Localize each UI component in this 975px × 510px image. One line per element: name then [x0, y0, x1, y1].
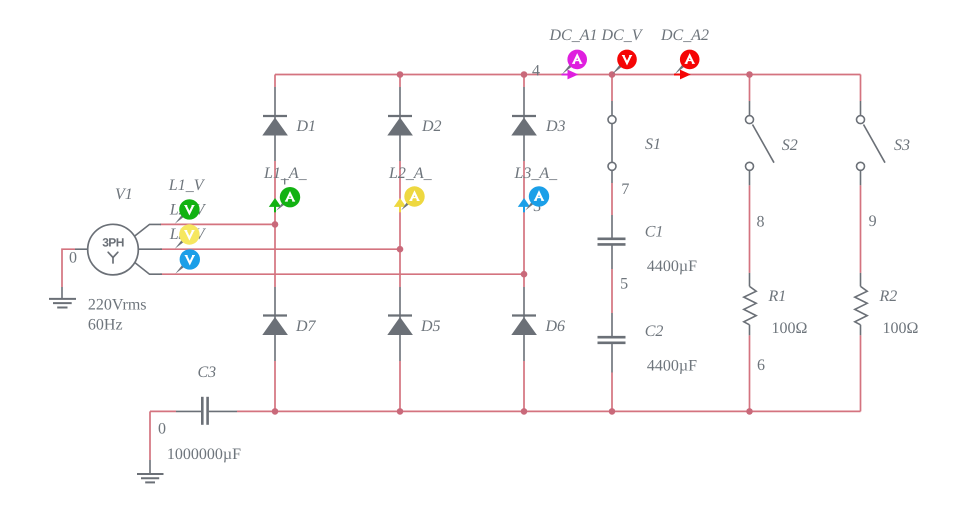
svg-text:3PH: 3PH: [102, 236, 124, 250]
svg-text:D7: D7: [295, 318, 317, 335]
svg-text:S1: S1: [645, 136, 661, 153]
svg-text:5: 5: [620, 275, 628, 292]
svg-text:D2: D2: [421, 118, 442, 135]
svg-text:DC_V: DC_V: [601, 27, 644, 44]
svg-text:L2_A_: L2_A_: [388, 165, 433, 182]
svg-text:4: 4: [532, 63, 540, 80]
svg-text:6: 6: [757, 357, 765, 374]
svg-text:R1: R1: [768, 288, 787, 305]
svg-text:1000000µF: 1000000µF: [167, 446, 241, 463]
svg-text:V1: V1: [115, 186, 133, 203]
svg-text:4400µF: 4400µF: [647, 258, 697, 275]
svg-text:9: 9: [869, 213, 877, 230]
svg-text:R2: R2: [879, 288, 898, 305]
svg-text:D3: D3: [545, 118, 566, 135]
svg-text:C1: C1: [645, 224, 664, 241]
svg-text:8: 8: [757, 213, 765, 230]
svg-text:S3: S3: [894, 137, 910, 154]
svg-text:D5: D5: [420, 318, 441, 335]
svg-text:0: 0: [158, 421, 166, 438]
svg-text:D6: D6: [545, 318, 566, 335]
svg-text:DC_A2: DC_A2: [660, 27, 709, 44]
svg-text:DC_A1: DC_A1: [549, 27, 598, 44]
svg-text:7: 7: [621, 181, 629, 198]
svg-text:C3: C3: [198, 364, 217, 381]
svg-text:100Ω: 100Ω: [883, 320, 919, 337]
svg-text:4400µF: 4400µF: [647, 357, 697, 374]
svg-text:D1: D1: [296, 118, 317, 135]
svg-text:S2: S2: [782, 137, 798, 154]
svg-text:L3_A_: L3_A_: [514, 165, 559, 182]
svg-text:60Hz: 60Hz: [88, 317, 123, 334]
svg-text:100Ω: 100Ω: [772, 320, 808, 337]
svg-text:L1_V: L1_V: [168, 177, 206, 194]
svg-text:C2: C2: [645, 323, 664, 340]
svg-text:0: 0: [69, 249, 77, 266]
svg-text:220Vrms: 220Vrms: [88, 296, 147, 313]
